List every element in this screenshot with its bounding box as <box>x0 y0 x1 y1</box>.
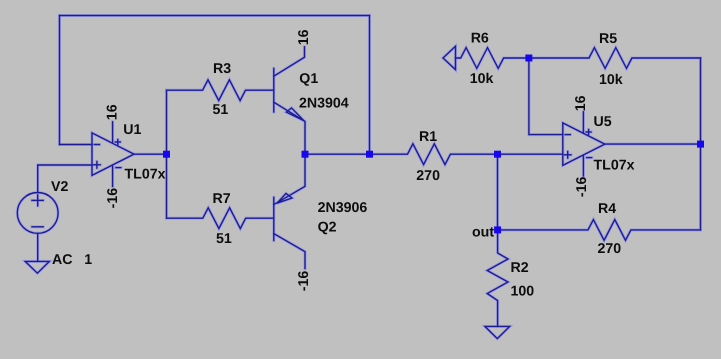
svg-text:R7: R7 <box>213 191 231 207</box>
svg-text:R2: R2 <box>511 260 529 276</box>
node junction emitters <box>302 151 309 158</box>
svg-text:16: 16 <box>105 104 121 120</box>
svg-text:2N3904: 2N3904 <box>299 95 349 111</box>
svg-text:TL07x: TL07x <box>594 158 635 174</box>
svg-text:2N3906: 2N3906 <box>318 200 368 216</box>
svg-text:Q2: Q2 <box>318 220 337 236</box>
svg-text:-16: -16 <box>105 188 121 209</box>
svg-text:out: out <box>472 224 494 240</box>
node junction feedback/rail <box>366 151 373 158</box>
svg-text:270: 270 <box>416 168 440 184</box>
svg-text:16: 16 <box>296 29 312 45</box>
svg-text:51: 51 <box>216 231 232 247</box>
node junction R6/R5 <box>525 55 532 62</box>
svg-text:R5: R5 <box>599 31 617 47</box>
node junction U1 output <box>163 151 170 158</box>
svg-text:-16: -16 <box>574 176 590 197</box>
svg-text:TL07x: TL07x <box>125 167 166 183</box>
svg-text:100: 100 <box>511 284 535 300</box>
svg-text:270: 270 <box>598 241 622 257</box>
node out <box>494 226 501 233</box>
svg-text:R4: R4 <box>598 201 616 217</box>
svg-text:10k: 10k <box>599 72 623 88</box>
svg-text:R3: R3 <box>213 61 231 77</box>
svg-text:1: 1 <box>84 252 92 268</box>
svg-text:U5: U5 <box>594 114 612 130</box>
svg-text:V2: V2 <box>51 179 68 195</box>
node junction R1 right <box>494 151 501 158</box>
svg-text:R1: R1 <box>419 129 437 145</box>
svg-text:51: 51 <box>213 102 229 118</box>
svg-text:-16: -16 <box>296 271 312 292</box>
svg-text:Q1: Q1 <box>299 71 318 87</box>
svg-text:R6: R6 <box>471 30 489 46</box>
svg-text:AC: AC <box>52 252 73 268</box>
svg-text:16: 16 <box>573 95 589 111</box>
svg-text:U1: U1 <box>123 122 141 138</box>
svg-text:10k: 10k <box>470 71 494 87</box>
node junction U5 output <box>697 141 704 148</box>
